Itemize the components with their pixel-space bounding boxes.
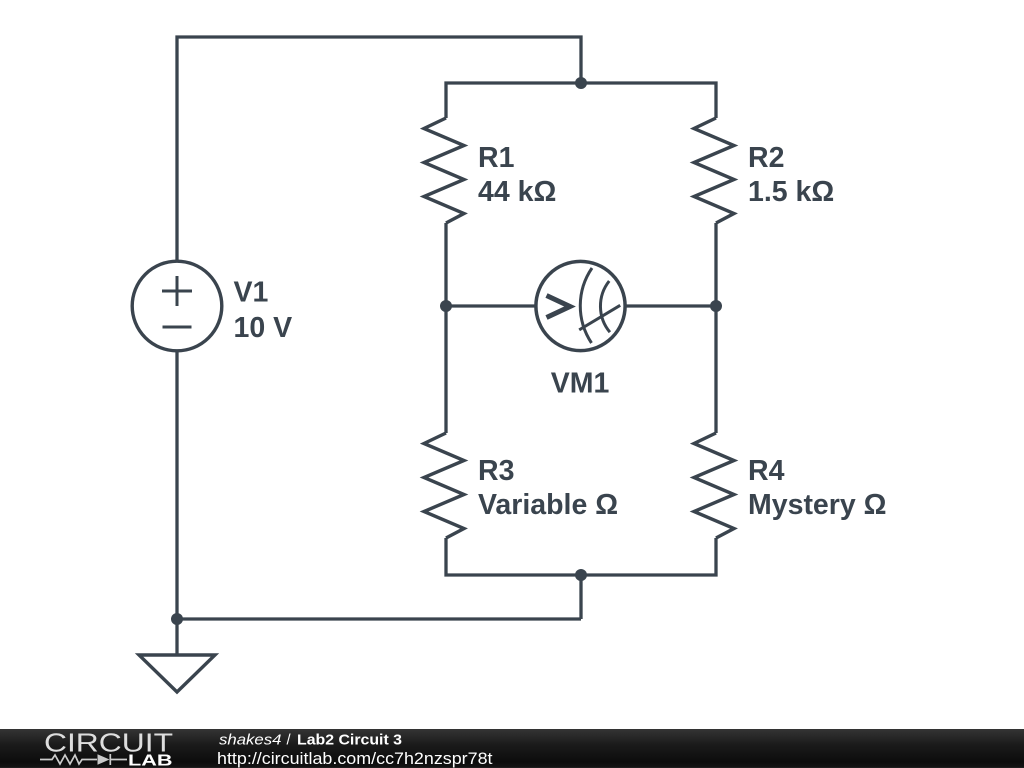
- svg-text:LAB: LAB: [128, 753, 173, 768]
- svg-text:Mystery Ω: Mystery Ω: [748, 489, 887, 521]
- wire ground stub: [175, 619, 178, 655]
- node ground junction: [171, 613, 183, 625]
- resistor R4: [694, 433, 734, 538]
- node bottom junction: [575, 569, 587, 581]
- svg-text:1.5 kΩ: 1.5 kΩ: [748, 176, 834, 208]
- logo resistor-diode symbol: [40, 754, 127, 765]
- svg-text:V1: V1: [234, 277, 269, 309]
- wire mid rail right: [626, 304, 716, 307]
- svg-text:10 V: 10 V: [234, 312, 293, 344]
- node mid-left junction: [440, 300, 452, 312]
- svg-text:R2: R2: [748, 142, 784, 174]
- svg-text:44 kΩ: 44 kΩ: [478, 176, 556, 208]
- footer bar: [0, 729, 1024, 768]
- svg-text:shakes4: shakes4: [219, 732, 282, 748]
- resistor R2: [694, 118, 734, 223]
- wire top rail: [446, 83, 716, 118]
- voltmeter VM1: [536, 261, 625, 350]
- wire R2 bottom lead: [714, 223, 717, 306]
- svg-text:R4: R4: [748, 455, 785, 487]
- wire R3 top lead: [444, 306, 447, 433]
- wire mid rail left: [446, 304, 536, 307]
- resistor R3: [424, 433, 464, 538]
- wire ground run: [177, 617, 581, 620]
- wire R4 top lead: [714, 306, 717, 433]
- wire bottom rail: [446, 538, 716, 575]
- ground: [139, 655, 215, 692]
- svg-text:VM1: VM1: [551, 368, 610, 400]
- resistor R1: [424, 118, 464, 223]
- voltage source V1: [132, 261, 222, 351]
- wire R1 bottom lead: [444, 223, 447, 306]
- svg-text:R1: R1: [478, 142, 515, 174]
- node mid-right junction: [710, 300, 722, 312]
- wire top loop V1 to top node: [177, 37, 581, 262]
- svg-text:Variable Ω: Variable Ω: [478, 489, 618, 521]
- node top junction: [575, 77, 587, 89]
- svg-text:http://circuitlab.com/cc7h2nzs: http://circuitlab.com/cc7h2nzspr78t: [217, 749, 493, 768]
- wire bottom node drop: [579, 575, 582, 619]
- wire V1 bottom lead: [175, 350, 178, 619]
- svg-text:R3: R3: [478, 455, 514, 487]
- svg-text:Lab2 Circuit 3: Lab2 Circuit 3: [297, 732, 402, 748]
